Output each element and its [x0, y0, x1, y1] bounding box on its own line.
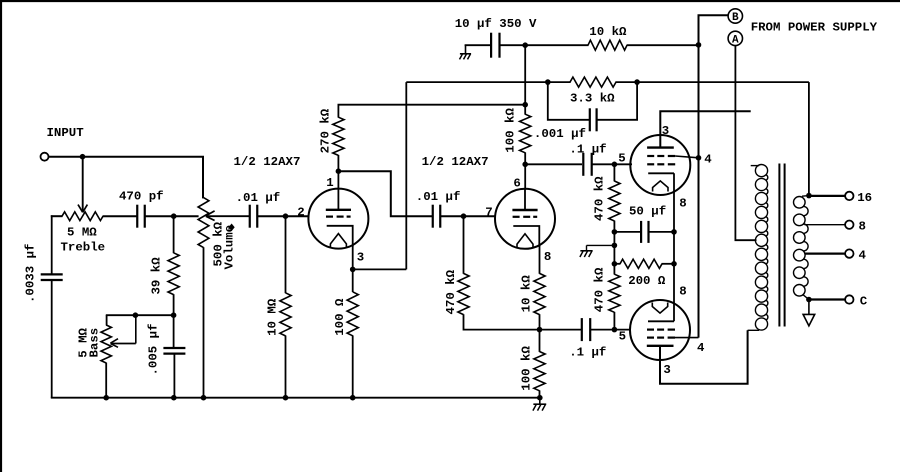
bass wiper arrow — [111, 343, 136, 345]
wire 10k bottom — [539, 314, 541, 352]
svg-text:39 kΩ: 39 kΩ — [150, 257, 164, 295]
svg-text:5: 5 — [618, 151, 625, 165]
ground rail symbol — [539, 398, 541, 404]
svg-text:Bass: Bass — [87, 328, 101, 358]
wire 10M top — [285, 216, 287, 293]
svg-text:1/2 12AX7: 1/2 12AX7 — [422, 155, 489, 169]
tube V3 grid dashes — [647, 163, 654, 165]
terminal B circle — [728, 9, 742, 23]
svg-text:10 µf 350 V: 10 µf 350 V — [455, 17, 537, 31]
resistor R 39k — [168, 253, 179, 295]
wire cap .0033 to rail — [51, 279, 53, 398]
wire 4 tap — [805, 253, 846, 255]
svg-text:B: B — [732, 12, 739, 24]
svg-text:16: 16 — [857, 191, 872, 205]
node 3.3k left — [545, 79, 551, 85]
node supply preamp — [522, 42, 528, 48]
terminal 16 — [845, 192, 853, 200]
svg-text:470 kΩ: 470 kΩ — [593, 176, 607, 221]
wire A to center tap — [735, 46, 756, 241]
node rail 100ohm — [350, 395, 356, 401]
node C tap — [806, 297, 812, 303]
wire 100k bottom — [524, 152, 526, 189]
capacitor C 10uf 350V — [490, 33, 492, 58]
node B+ preamp node — [522, 102, 528, 108]
svg-text:4: 4 — [697, 341, 705, 355]
wire plate2 to .1uf — [525, 163, 582, 165]
wire bass top lead — [106, 315, 108, 325]
wire cathode bus — [673, 173, 675, 321]
wire ground rail — [51, 397, 540, 399]
wire 270k top — [337, 105, 339, 118]
svg-text:1/2 12AX7: 1/2 12AX7 — [234, 155, 301, 169]
svg-text:8: 8 — [859, 220, 866, 234]
svg-text:.01 µf: .01 µf — [416, 190, 461, 204]
resistor R 200ohm — [620, 259, 662, 268]
wire feedback vertical — [405, 82, 407, 269]
wire 470k lower bottom lead — [613, 312, 615, 330]
tube V2 grid dashes — [513, 216, 520, 218]
node 50uf left — [612, 229, 618, 235]
resistor R 100k stage2 — [520, 114, 531, 153]
tube V4 grid dashes — [647, 329, 654, 331]
node 50uf right — [671, 229, 677, 235]
node rail .005 — [171, 395, 177, 401]
svg-text:.0033 µf: .0033 µf — [24, 244, 38, 304]
ground mid — [587, 244, 615, 246]
node B line supply junction — [696, 42, 702, 48]
node 200ohm left — [612, 261, 618, 267]
tube V3 heater — [653, 181, 668, 192]
svg-text:470 kΩ: 470 kΩ — [593, 267, 607, 312]
svg-text:100 Ω: 100 Ω — [333, 298, 347, 336]
tube V4 screen lead — [675, 337, 699, 339]
wire cathode1 down — [352, 245, 354, 292]
svg-text:10 kΩ: 10 kΩ — [520, 275, 534, 313]
resistor R 470k stage2 — [458, 273, 469, 314]
svg-text:5 MΩ: 5 MΩ — [67, 225, 97, 239]
wire 470k bottom to .1uf — [464, 314, 582, 329]
node 16 tap — [806, 193, 812, 199]
tube V3 envelope — [630, 135, 690, 195]
tube V4 cathode — [648, 320, 674, 322]
tube V1 grid dashes — [326, 216, 333, 218]
node rail volume — [201, 395, 207, 401]
wire gnd to 10uf cap — [465, 44, 492, 46]
wire treble to cap .0033 — [51, 215, 53, 275]
wire input to volume pot top — [49, 156, 205, 158]
potentiometer treble 5M zigzag — [62, 212, 103, 221]
border frame top — [0, 0, 900, 2]
terminal C — [845, 295, 853, 303]
svg-text:470 kΩ: 470 kΩ — [444, 269, 458, 314]
node grid lower output — [612, 327, 618, 333]
tube V2 plate — [524, 189, 526, 210]
svg-text:470 pf: 470 pf — [119, 190, 164, 204]
tube V3 plate — [647, 146, 674, 148]
resistor R 10M — [280, 293, 291, 336]
capacitor C .1uf lower — [581, 318, 583, 341]
wire B+ preamp rail — [338, 104, 526, 106]
node screen upper — [696, 155, 702, 161]
capacitor C .001uf — [589, 108, 591, 131]
volume wiper arrow — [206, 215, 249, 217]
capacitor C 470pf — [136, 205, 138, 228]
node grid2 junction — [461, 213, 467, 219]
resistor R 100ohm — [347, 292, 358, 336]
wire B to screens — [699, 15, 729, 337]
svg-text:3.3 kΩ: 3.3 kΩ — [570, 91, 615, 105]
tube V1 heater — [330, 234, 346, 248]
wire plate V4 — [660, 330, 748, 384]
tube V2 heater — [517, 234, 533, 248]
wire treble wiper — [82, 157, 84, 211]
capacitor C .1uf upper — [582, 153, 584, 176]
node grid upper output — [612, 162, 618, 168]
svg-text:200 Ω: 200 Ω — [628, 274, 666, 288]
wire 100k tail bottom — [539, 390, 541, 397]
node rail 10M — [283, 395, 289, 401]
resistor R 470k lower grid — [609, 274, 620, 312]
resistor R 10k supply — [588, 40, 627, 50]
node grid1 junction — [283, 213, 289, 219]
svg-text:100 kΩ: 100 kΩ — [520, 346, 534, 391]
svg-text:.01 µf: .01 µf — [236, 191, 281, 205]
terminal 4 — [845, 249, 853, 257]
wire 10M bottom — [285, 336, 287, 398]
volume label diamond — [229, 224, 235, 232]
svg-text:.001 µf: .001 µf — [534, 127, 586, 141]
tube V4 heater — [652, 303, 667, 314]
tube V1 cathode — [327, 226, 353, 247]
wire volume bottom — [203, 247, 205, 398]
wire plate V3 — [660, 111, 750, 148]
wire 16 tap — [809, 195, 845, 197]
svg-text:4: 4 — [859, 249, 867, 263]
svg-text:.005 µf: .005 µf — [147, 323, 161, 375]
tube V2 envelope — [495, 189, 555, 249]
resistor R 270k — [333, 117, 344, 155]
input terminal — [41, 153, 49, 161]
svg-text:3: 3 — [663, 363, 670, 377]
node rail bass — [103, 395, 109, 401]
svg-text:10 MΩ: 10 MΩ — [265, 298, 279, 336]
capacitor C .0033uf — [41, 273, 63, 275]
tube V3 screen lead — [675, 156, 698, 158]
terminal 8 — [845, 221, 853, 229]
svg-text:FROM POWER SUPPLY: FROM POWER SUPPLY — [751, 20, 878, 34]
svg-text:7: 7 — [485, 205, 492, 219]
svg-text:1: 1 — [326, 176, 333, 190]
svg-text:100 kΩ: 100 kΩ — [503, 108, 517, 153]
node gnd mid left — [612, 243, 618, 249]
transformer T1 primary winding — [748, 165, 768, 331]
wire feedback top — [406, 81, 570, 83]
node plate1 junction — [336, 168, 342, 174]
svg-text:INPUT: INPUT — [47, 126, 85, 140]
tube V2 cathode — [513, 226, 539, 247]
node rail right end — [537, 395, 543, 401]
node bass branch junction — [171, 312, 177, 318]
svg-text:50 µf: 50 µf — [629, 204, 666, 218]
wire cap2 to grid2 — [440, 215, 496, 217]
svg-text:5: 5 — [619, 330, 626, 344]
capacitor C .01uf stage1 — [249, 205, 251, 228]
wire .1uf to grid5 lower — [590, 329, 630, 331]
wire plate1 to coupling — [338, 171, 433, 216]
node 200ohm right — [671, 261, 677, 267]
terminal A circle — [728, 31, 742, 45]
wire 10uf to node — [500, 44, 589, 46]
tube V4 plate — [647, 345, 674, 347]
wire 200ohm leads — [614, 263, 620, 265]
wire 50uf right — [649, 231, 675, 233]
wire treble left lead — [51, 215, 63, 217]
resistor R 10k cathode — [534, 273, 545, 314]
wire 100k top — [524, 45, 526, 114]
node bass wiper junction — [133, 312, 139, 318]
wire 470pf to volume — [145, 215, 199, 217]
svg-text:8: 8 — [544, 250, 551, 264]
svg-text:.1 µf: .1 µf — [569, 143, 606, 157]
svg-text:Treble: Treble — [61, 240, 106, 254]
svg-text:3: 3 — [357, 250, 364, 264]
wire cap to grid1 — [257, 215, 309, 217]
wire feedback to 16 tap — [808, 82, 810, 196]
wire feedback cathode1 — [353, 268, 407, 270]
border frame left — [0, 0, 2, 472]
node treble-volume junction — [171, 213, 177, 219]
wire cathode2 down — [539, 245, 541, 274]
wire treble right lead — [103, 215, 137, 217]
resistor R 470k upper grid — [609, 181, 620, 221]
wire 50uf left — [614, 231, 641, 233]
svg-text:8: 8 — [679, 285, 686, 299]
ground 10uf — [465, 45, 467, 53]
wire 8 tap — [805, 224, 846, 226]
svg-text:A: A — [732, 35, 739, 47]
resistor R 3.3k — [570, 77, 616, 87]
transformer T1 secondary winding — [794, 196, 809, 300]
wire 100ohm bottom — [352, 335, 354, 397]
transformer T1 core — [778, 164, 780, 327]
svg-text:6: 6 — [513, 176, 520, 190]
svg-text:270 kΩ: 270 kΩ — [319, 108, 333, 153]
svg-text:2: 2 — [297, 205, 304, 219]
tube V3 cathode — [648, 172, 674, 174]
wire 270k bottom to plate — [337, 155, 339, 190]
wire .001 branch — [548, 82, 589, 120]
svg-text:4: 4 — [704, 153, 712, 167]
wire 39k to .005 node — [173, 294, 175, 348]
wire bass bottom lead — [105, 363, 107, 398]
tube V4 screen dashes — [647, 337, 654, 339]
capacitor C .01uf stage2 — [432, 205, 434, 228]
wire C tap — [809, 298, 845, 300]
svg-text:10 kΩ: 10 kΩ — [589, 25, 627, 39]
wire 470k upper leads — [613, 164, 615, 181]
resistor R 100k tail — [534, 352, 545, 391]
capacitor C 50uf — [640, 221, 642, 243]
ground secondary — [808, 300, 810, 315]
tube V3 screen dashes — [647, 155, 654, 157]
wire bass branch — [106, 314, 174, 316]
node plate2 junction — [522, 162, 528, 168]
svg-text:3: 3 — [662, 124, 669, 138]
wire 10k to B line — [627, 44, 699, 46]
node cathode2 node — [537, 327, 543, 333]
tube V4 envelope — [630, 300, 690, 360]
tube V1 plate — [337, 189, 339, 210]
svg-text:Volume: Volume — [223, 225, 237, 270]
wire .005 to rail — [173, 354, 175, 398]
node input junction — [80, 154, 86, 160]
tube V1 envelope — [308, 189, 368, 249]
wire .1uf to grid5 upper — [592, 163, 632, 165]
potentiometer volume 500k zigzag — [198, 198, 209, 248]
svg-text:8: 8 — [679, 196, 686, 210]
potentiometer bass 5M zigzag — [101, 325, 111, 363]
wire junction down to 39k — [173, 216, 175, 253]
wire 470k top — [463, 216, 465, 274]
svg-text:.1 µf: .1 µf — [569, 345, 606, 359]
svg-text:C: C — [860, 295, 868, 309]
capacitor C .005uf — [163, 347, 185, 349]
node cathode1 junction — [350, 267, 356, 273]
node 3.3k right — [634, 79, 640, 85]
